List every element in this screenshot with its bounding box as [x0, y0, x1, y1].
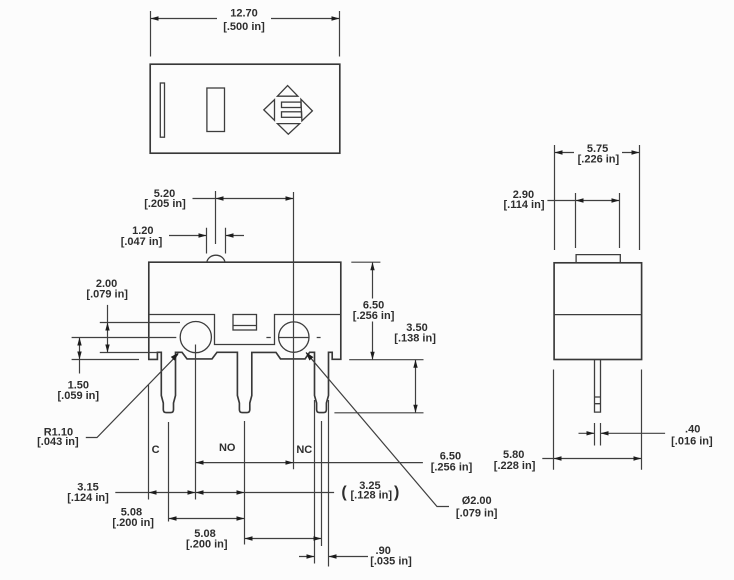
top view actuator window — [207, 88, 225, 132]
dimension .40: lines and arrows with leader — [579, 432, 666, 434]
dimension 5.08 second: label — [186, 528, 228, 551]
svg-text:[.128 in]: [.128 in] — [351, 489, 393, 501]
svg-text:[.016 in]: [.016 in] — [671, 436, 713, 448]
left circle vertical line going down — [195, 345, 197, 500]
logo arrow-E top bar — [282, 102, 302, 107]
dimension 3.50: dimension line — [415, 360, 417, 413]
svg-text:[.035 in]: [.035 in] — [370, 555, 412, 567]
leader Ø2.00 — [306, 353, 449, 507]
svg-text:[.256 in]: [.256 in] — [353, 310, 395, 322]
dimension 6.50 right side: extension lines — [349, 262, 423, 360]
dimension 2.00: dimension line with tail — [107, 305, 109, 353]
svg-text:[.043 in]: [.043 in] — [37, 436, 79, 448]
dimension 5.20: label — [144, 188, 186, 210]
svg-text:.40: .40 — [685, 423, 700, 435]
dimension 5.75: dimension line — [555, 152, 640, 154]
left rivet circle — [180, 322, 211, 353]
button edge extension lines (1.20) — [207, 228, 226, 254]
dimension 3.50: label — [394, 322, 436, 345]
dimension 1.50: label — [58, 379, 100, 402]
extension line pin NO centre — [244, 421, 246, 545]
dimension 12.70: arrowheads — [151, 16, 159, 20]
dimension .40: extension lines — [595, 423, 601, 446]
logo down triangle — [277, 124, 299, 135]
svg-text:(: ( — [341, 484, 347, 501]
dimension 1.50: dimension line with tail below — [79, 338, 81, 374]
dimension (3.25): line with leader to label — [196, 492, 335, 494]
extension line pin C centre — [168, 422, 170, 522]
dimension 12.70: dimension line — [151, 18, 340, 20]
dimension 2.90: label — [504, 189, 545, 211]
dimension .90: lines and arrows — [299, 556, 368, 558]
left circle centerline extension to the left — [72, 337, 177, 339]
dimension 2.00: label — [86, 278, 128, 301]
svg-text:[.079 in]: [.079 in] — [456, 508, 498, 520]
dimension 3.15: line and arrows — [115, 492, 195, 494]
svg-text:[.200 in]: [.200 in] — [186, 538, 228, 550]
dimension 12.70: label — [217, 8, 271, 33]
logo left triangle — [264, 100, 275, 121]
dimension 5.75: label — [574, 142, 622, 165]
svg-text:[.500 in]: [.500 in] — [223, 21, 265, 33]
svg-text:12.70: 12.70 — [230, 8, 258, 20]
top view slot (thin) — [160, 83, 164, 137]
side view divider line — [554, 314, 642, 316]
svg-text:[.079 in]: [.079 in] — [86, 289, 128, 301]
side view body — [554, 263, 642, 360]
dimension 1.20: label — [121, 225, 163, 248]
dimension 6.50 bottom (hole centres): line with leader — [196, 462, 423, 464]
svg-text:[.138 in]: [.138 in] — [394, 332, 436, 344]
svg-text:[.114 in]: [.114 in] — [504, 199, 545, 211]
push button bump — [207, 255, 225, 262]
dimension 3.15: label — [67, 482, 109, 505]
svg-text:[.228 in]: [.228 in] — [494, 460, 536, 472]
front actuator slot — [233, 315, 257, 331]
front body outline with feet, bosses and pins C/NO/NC — [149, 262, 341, 412]
dimension 2.90: dimension line with left tail — [547, 200, 619, 202]
dimension .90: label — [370, 545, 412, 567]
front base top internal line with center valley — [149, 315, 341, 345]
svg-text:[.047 in]: [.047 in] — [121, 236, 163, 248]
dimension 2.00: extension lines — [100, 323, 180, 353]
dimension 6.50 right side: label — [350, 299, 397, 322]
logo arrow-E head — [301, 99, 313, 121]
svg-text:NO: NO — [219, 442, 236, 454]
dimension 5.75: extension lines — [555, 145, 640, 250]
long vertical extension through right circle (5.20 / 6.50) — [293, 192, 295, 469]
dimension (3.25): label with parentheses — [341, 480, 399, 501]
svg-text:): ) — [394, 484, 399, 501]
extension line from body left edge down — [148, 385, 150, 500]
logo arrow-E middle bar — [282, 112, 302, 118]
svg-text:NC: NC — [296, 444, 312, 456]
label R1.10 — [37, 426, 79, 448]
dimension 5.80: dimension line with left tail — [542, 458, 641, 460]
dimension 5.20: line and arrows — [193, 198, 294, 200]
svg-text:Ø2.00: Ø2.00 — [462, 495, 492, 507]
dimension 3.50: extension line bottom — [334, 412, 423, 414]
svg-text:[.226 in]: [.226 in] — [578, 153, 620, 165]
svg-text:[.256 in]: [.256 in] — [431, 462, 473, 474]
side view button — [576, 255, 620, 263]
right rivet circle — [279, 322, 309, 352]
right circle horizontal centerline and dashes — [266, 337, 320, 339]
label Ø2.00 — [456, 495, 498, 519]
dimension 5.08 first: label — [112, 507, 154, 530]
svg-text:6.50: 6.50 — [440, 450, 461, 462]
dimension 2.90: extension lines — [576, 193, 620, 248]
logo up triangle — [277, 86, 298, 97]
dimension 5.80: extension lines — [554, 370, 642, 470]
svg-text:[.124 in]: [.124 in] — [67, 492, 109, 504]
dimension 1.20: line and arrows — [169, 235, 244, 237]
side view pin — [595, 360, 601, 413]
dimension 6.50 bottom: label — [431, 450, 473, 473]
svg-text:[.059 in]: [.059 in] — [58, 390, 100, 402]
top view body outline — [150, 64, 340, 153]
svg-text:[.200 in]: [.200 in] — [112, 517, 154, 529]
dimension 5.08 first: line and arrows — [169, 518, 245, 520]
svg-text:C: C — [152, 444, 160, 456]
leader R1.10 — [86, 354, 178, 437]
dimension 12.70: extension lines — [151, 11, 340, 57]
dimension 1.50: extension line bottom — [72, 359, 139, 361]
extension lines pin NC edges and centre — [315, 400, 329, 567]
dimension 6.50 right side: dimension line — [372, 262, 374, 360]
dimension .40: label — [671, 423, 713, 447]
svg-text:[.205 in]: [.205 in] — [144, 198, 186, 210]
button centre extension line — [215, 191, 217, 244]
dimension 5.08 second: line and arrows — [245, 538, 322, 540]
dimension 5.80: label — [494, 449, 536, 472]
